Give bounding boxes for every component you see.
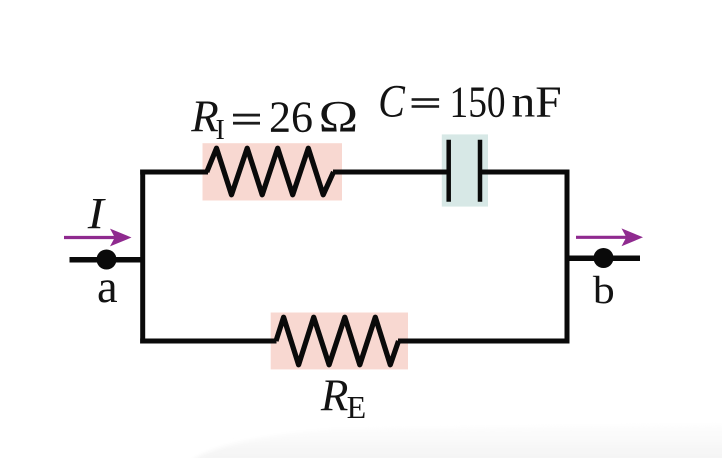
wire: bottom branch right segment: [398, 339, 570, 344]
svg-text:b: b: [593, 268, 615, 311]
wire: top branch left segment: [140, 170, 208, 175]
current arrow at terminal b: [576, 228, 643, 246]
svg-text:R: R: [320, 371, 349, 421]
wire: terminal a lead: [70, 257, 146, 263]
svg-text:a: a: [97, 262, 118, 313]
wire: terminal b lead: [565, 256, 641, 262]
node a dot: [97, 250, 117, 270]
svg-text:Ω: Ω: [318, 91, 359, 141]
capacitor C left plate: [446, 140, 451, 202]
current arrow at terminal a: [64, 229, 132, 247]
label node b: [593, 268, 615, 311]
label I (current): [87, 190, 107, 239]
wire: top branch right segment (capacitor to corner): [480, 170, 570, 175]
svg-text:150: 150: [450, 78, 506, 126]
svg-text:C: C: [378, 76, 405, 128]
capacitor C highlight: [442, 134, 488, 206]
page shadow wedge (decorative): [190, 423, 722, 458]
capacitor C right plate: [478, 140, 483, 202]
resistor R_E highlight: [271, 313, 408, 370]
svg-text:26: 26: [269, 93, 313, 142]
wire: left vertical branch: [140, 170, 145, 344]
svg-text:I: I: [216, 115, 225, 146]
label C = 150 nF: [378, 76, 561, 128]
resistor R_E zigzag: [276, 317, 399, 365]
resistor R_I zigzag: [207, 148, 334, 195]
label R_E: [320, 371, 366, 426]
resistor R_I highlight: [203, 143, 343, 200]
node b dot: [594, 248, 614, 268]
label R_I = 26 Ohm: [190, 91, 358, 146]
wire: bottom branch left segment: [140, 339, 276, 344]
svg-text:I: I: [87, 190, 107, 239]
svg-text:E: E: [347, 389, 367, 425]
wire: right vertical branch: [565, 170, 570, 344]
svg-text:nF: nF: [512, 77, 562, 126]
wire: top branch middle segment (resistor to capacitor): [333, 170, 449, 175]
label node a: [97, 262, 118, 313]
